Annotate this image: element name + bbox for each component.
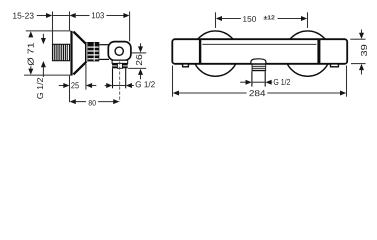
extension line cone end plane [85, 64, 87, 90]
dim G1/2 outlet leader stub [105, 85, 107, 87]
dim 26 text [136, 55, 142, 66]
outlet coupling nut cut [112, 63, 128, 68]
dim 39 bottom extension [351, 63, 366, 65]
extension line escutcheon front upper [69, 12, 71, 31]
dim G1/2 outlet arrow left-pointing [126, 83, 132, 88]
dim 80 line right [98, 101, 114, 103]
dim 103 arrow right [123, 13, 129, 18]
dim 26 shaft lower [140, 74, 142, 79]
dim G1/2 outlet leader right [131, 85, 133, 87]
dim 26 arrow up [138, 69, 143, 75]
escutcheon rim [70, 31, 72, 75]
escutcheon cone bottom edge [73, 62, 86, 75]
escutcheon cone top edge [73, 32, 86, 45]
dim 284 extension right [346, 66, 348, 97]
outlet nut front [252, 64, 267, 72]
dim 39 shaft upper [361, 30, 363, 35]
dim 150 text [243, 16, 256, 22]
dim G1/2 front text [274, 79, 290, 85]
dim 26 arrow down [138, 46, 143, 52]
right handle boundary lines [317, 40, 320, 64]
union nut knurled [85, 42, 99, 61]
dim 26 bottom extension [128, 67, 146, 69]
dim G1/2 front arrow right-pointing [246, 80, 252, 85]
extension line handle front [129, 12, 131, 42]
left handle tab [183, 64, 189, 67]
outlet hose nipple front [252, 71, 265, 86]
dim 25 tail line [92, 85, 97, 87]
dim 25 text [71, 82, 79, 88]
dim 150 arrow right [301, 16, 307, 21]
bar body [172, 39, 347, 64]
dim 150 tolerance text [264, 15, 275, 19]
dim 284 text [249, 90, 265, 96]
dim 80 arrow right [113, 99, 119, 104]
dim O71 top extension line [26, 30, 71, 32]
dim O71 arrow down [28, 69, 33, 75]
dim 284 line left [178, 92, 246, 94]
dim 39 arrow up [359, 64, 364, 70]
handle center cap circle [115, 47, 123, 55]
dim 39 top extension [350, 38, 365, 40]
dim 80 line left [75, 101, 86, 103]
bar top inner edge line [202, 43, 316, 45]
dim 103 arrow left [70, 13, 76, 18]
dim G1/2 nipple text [37, 78, 43, 99]
dim 150 extension left [215, 12, 217, 28]
dim 150 extension right [307, 12, 309, 28]
dim 103 text [92, 12, 104, 18]
dim 39 arrow down [359, 33, 364, 39]
dim 80 text [89, 100, 96, 105]
dim 284 arrow right [340, 91, 346, 96]
dim G1/2 front leader right [271, 81, 272, 83]
outlet flange front [251, 59, 266, 64]
dim 26 shaft upper [140, 43, 142, 48]
dim 25 arrow left [86, 83, 92, 88]
dim O71 lower stub [30, 66, 32, 69]
dim G1/2 front arrow left-pointing [265, 80, 271, 85]
dim 39 shaft lower [361, 70, 363, 75]
dim 25 arrow right [63, 83, 69, 88]
dim G1/2 front connecting line [252, 81, 265, 83]
outlet centerline [119, 62, 121, 102]
escutcheon circle left [193, 31, 238, 76]
dim O71 text [27, 43, 33, 66]
extension line escutcheon front lower [69, 76, 71, 103]
dim G1/2 outlet text [136, 81, 155, 87]
dim 150 line right [278, 18, 302, 20]
dim 103 line left segment [75, 15, 90, 17]
dim 150 arrow left [216, 16, 222, 21]
dim 39 text [361, 45, 367, 56]
right handle tab [331, 64, 339, 67]
dim G1/2 outlet connecting line [113, 85, 126, 87]
dim 284 line right [267, 92, 341, 94]
outlet flange [112, 60, 128, 63]
handle body side view [108, 42, 131, 61]
dim 80 arrow left [70, 99, 76, 104]
dim G1/2 nipple arrow down [41, 38, 46, 44]
dim 26 top extension [131, 52, 146, 54]
dim 150 line left [221, 18, 241, 20]
dim G1/2 nipple arrow up [41, 61, 46, 67]
left handle boundary lines [199, 40, 201, 64]
dim O71 arrow up [28, 31, 33, 37]
dim 15-23 leader line [37, 15, 47, 17]
wall nipple threaded [53, 44, 70, 60]
dim G1/2 front leader left [240, 81, 246, 83]
dim line wall to escutcheon [53, 15, 70, 17]
dim 284 extension left [172, 66, 174, 97]
dim O71 bottom extension line [24, 74, 73, 76]
dim 25 leader left [59, 85, 64, 87]
dim 15-23 text [13, 13, 34, 19]
dim 103 line right segment [106, 15, 124, 17]
dim 284 arrow left [173, 91, 179, 96]
dim G1/2 nipple shaft upper [42, 34, 44, 39]
escutcheon circle right [285, 31, 330, 76]
neck between nut and handle [99, 45, 109, 60]
dim G1/2 outlet arrow right-pointing [106, 83, 112, 88]
dim 15-23 arrow right [46, 13, 52, 18]
dim G1/2 nipple shaft lower [42, 67, 44, 77]
outlet hose nipple cylinder [113, 68, 126, 88]
extension line wall plane [52, 12, 54, 45]
